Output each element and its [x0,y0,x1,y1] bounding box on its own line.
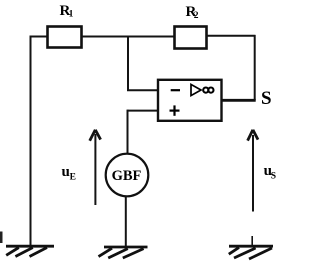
wire: GBF bottom to middle ground [125,196,127,247]
svg-text:2: 2 [194,11,199,21]
op-amp minus input sign [171,89,180,91]
svg-text:S: S [261,88,272,109]
scan artifact on left edge [0,232,3,244]
svg-text:u: u [62,164,70,180]
wire: non-inverting branch down to GBF top [127,110,129,154]
wire: stub above right ground [251,236,253,247]
svg-text:S: S [271,172,276,182]
svg-text:1: 1 [69,10,74,20]
op-amp infinity symbol [203,88,208,93]
svg-text:E: E [70,173,76,183]
wire: R2 right to top-right corner [207,35,256,37]
resistor R2 [175,27,207,49]
arrow uE [90,130,101,205]
ground (middle) [99,247,148,258]
op-amp U1 [158,80,222,121]
wire: junction branch down to inverting input [127,37,129,91]
svg-text:GBF: GBF [112,168,142,184]
wire: inverting input horizontal [127,89,158,91]
ground (left) [6,246,54,256]
wire: non-inverting input horizontal [128,110,159,112]
wire: right vertical down to output node [254,35,256,100]
wire: left vertical from top wire down to left ground [30,37,32,246]
op-amp gain triangle [191,84,201,95]
wire: top horizontal R1 to R2 [82,36,175,38]
arrow uS [248,130,258,212]
GBF source [106,154,149,197]
op-amp plus input sign [170,109,180,111]
wire: op-amp output to node S [222,99,256,102]
wire: top-left horizontal into R1 [30,36,48,38]
ground (right) [229,246,273,259]
resistor R1 [48,27,82,48]
